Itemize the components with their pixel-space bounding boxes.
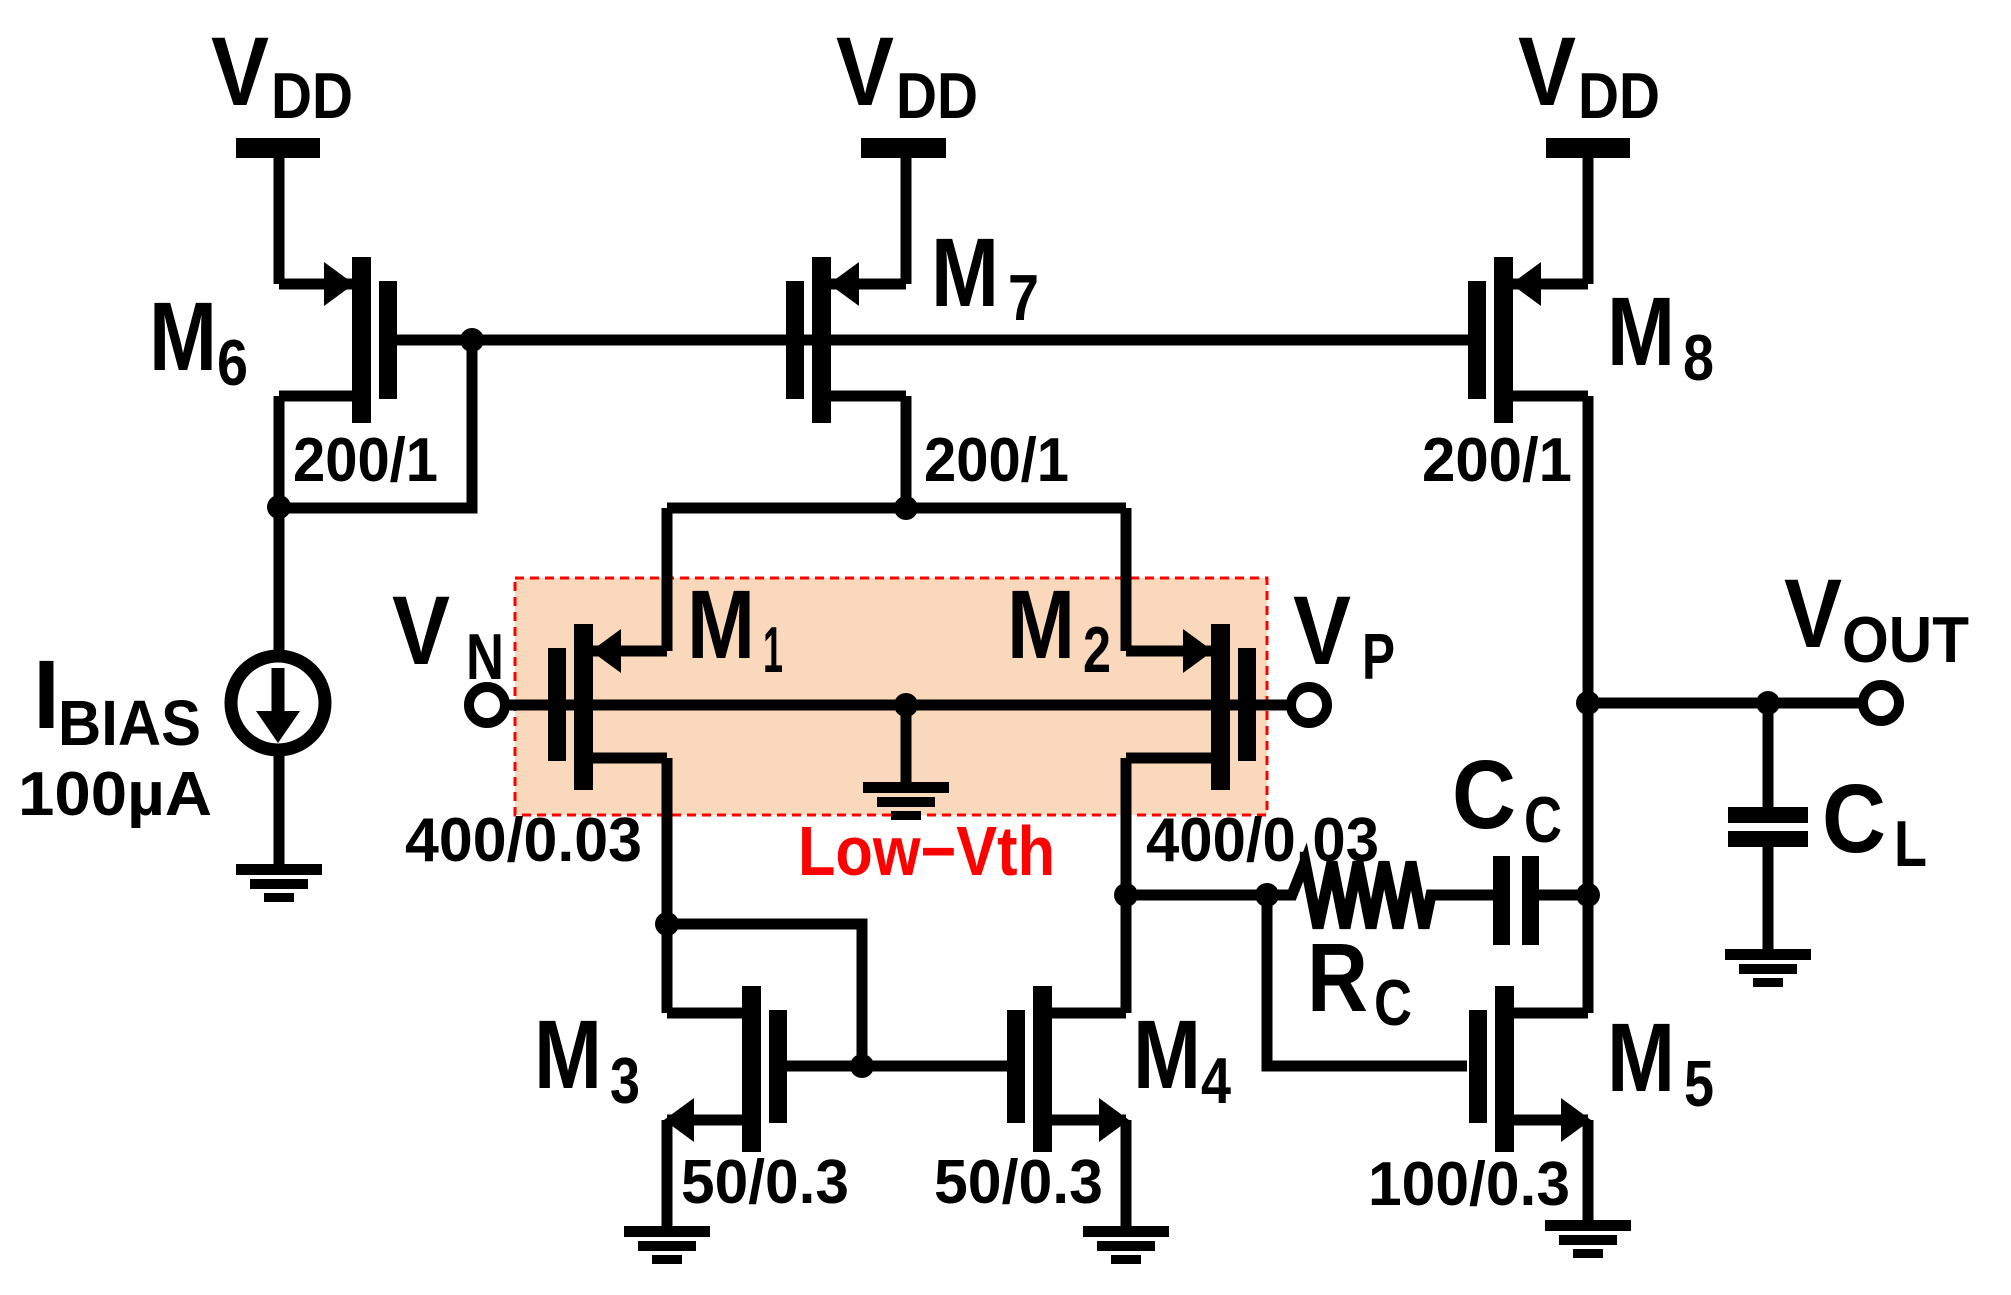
svg-text:8: 8 xyxy=(1683,321,1714,394)
svg-text:1: 1 xyxy=(763,613,783,686)
wire (bias node to current source) xyxy=(274,507,285,660)
svg-text:100/0.3: 100/0.3 xyxy=(1368,1150,1570,1219)
wire (tail to M1 source) xyxy=(662,508,673,651)
ground (CL) xyxy=(1725,949,1811,987)
svg-text:7: 7 xyxy=(1008,261,1039,334)
wire (M4 drain up) xyxy=(1121,895,1132,1013)
wire (gate bus M6-M7-M8) xyxy=(472,335,1470,346)
capacitor CC xyxy=(1493,856,1588,945)
wire (VN gate / bulk line / VP gate) xyxy=(508,700,1287,711)
svg-text:V: V xyxy=(1784,559,1842,668)
wire (tail to M2 source) xyxy=(1121,508,1132,651)
ground (M3) xyxy=(624,1226,710,1264)
svg-text:C: C xyxy=(1524,783,1562,856)
node (CC to output branch) xyxy=(1576,883,1600,907)
transistor M5 (NMOS output) xyxy=(1469,986,1591,1152)
svg-text:L: L xyxy=(1894,807,1927,880)
wire (M7 drain to tail node) xyxy=(901,396,912,508)
node (first-stage output) xyxy=(1114,883,1138,907)
node (VOUT tap) xyxy=(1576,691,1600,715)
power VDD (M8 branch) xyxy=(1546,138,1630,284)
transistor M6 (PMOS, diode-connected) xyxy=(279,257,472,423)
svg-text:4: 4 xyxy=(1201,1044,1231,1117)
node (tail) xyxy=(894,496,918,520)
wire (bulk to ground) xyxy=(901,705,912,784)
wire (tail rail) xyxy=(667,503,1126,514)
svg-text:C: C xyxy=(1452,740,1516,849)
svg-text:V: V xyxy=(1293,576,1351,685)
power VDD (M7 branch) xyxy=(861,138,946,284)
wire (M6 gate-drain diode connection) xyxy=(285,340,472,508)
wire (M3 gate-drain diode connection) xyxy=(667,924,862,1066)
svg-text:BIAS: BIAS xyxy=(58,687,201,759)
transistor M4 (NMOS mirror) xyxy=(1007,986,1129,1152)
ground (bulk of M1/M2) xyxy=(863,782,949,820)
wire (to M5 gate) xyxy=(1267,895,1467,1066)
svg-text:50/0.3: 50/0.3 xyxy=(934,1148,1103,1217)
svg-text:DD: DD xyxy=(1578,59,1660,132)
svg-text:M: M xyxy=(1607,277,1675,386)
wire (VOUT rail) xyxy=(1588,698,1862,709)
svg-text:M: M xyxy=(687,570,755,679)
node (M6 gate/drain tie) xyxy=(460,328,484,352)
svg-text:N: N xyxy=(466,620,504,693)
wire (to compensation network) xyxy=(1126,890,1267,901)
svg-text:C: C xyxy=(1374,966,1412,1039)
svg-text:I: I xyxy=(33,640,60,749)
transistor M8 (PMOS output source) xyxy=(1468,257,1588,423)
wire (M5 source to ground) xyxy=(1583,1120,1594,1222)
terminal VOUT xyxy=(1863,685,1899,721)
wire (M3 source to ground) xyxy=(662,1120,673,1228)
svg-text:M: M xyxy=(931,218,999,327)
current source IBIAS xyxy=(231,656,325,750)
wire (M4 source to ground) xyxy=(1121,1120,1132,1228)
svg-text:400/0.03: 400/0.03 xyxy=(405,806,642,875)
svg-text:M: M xyxy=(1607,1003,1675,1112)
wire (M1 drain to M3 drain) xyxy=(662,758,673,1013)
svg-text:DD: DD xyxy=(896,59,978,132)
node (M6 drain / IBIAS) xyxy=(267,495,291,519)
svg-text:V: V xyxy=(392,576,450,685)
svg-text:Low−Vth: Low−Vth xyxy=(798,812,1055,890)
node (bulk tie) xyxy=(894,693,918,717)
node (M3 drain/gate tie) xyxy=(655,912,679,936)
resistor RC xyxy=(1267,862,1493,928)
svg-text:M: M xyxy=(1007,570,1075,679)
svg-text:200/1: 200/1 xyxy=(924,426,1069,495)
svg-text:5: 5 xyxy=(1684,1047,1714,1120)
power VDD (M6 branch) xyxy=(236,138,320,284)
ground (IBIAS) xyxy=(236,864,322,902)
svg-text:3: 3 xyxy=(610,1044,640,1117)
transistor M1 (low-Vth PMOS input) xyxy=(548,624,667,790)
svg-text:6: 6 xyxy=(217,326,248,399)
transistor M2 (low-Vth PMOS input) xyxy=(1126,624,1256,790)
svg-text:M: M xyxy=(149,282,217,391)
terminal VN xyxy=(469,687,505,723)
node (M3/M4 gate) xyxy=(850,1054,874,1078)
svg-text:M: M xyxy=(1133,1000,1201,1109)
svg-text:OUT: OUT xyxy=(1842,603,1969,676)
svg-text:DD: DD xyxy=(271,59,353,132)
transistor M7 (PMOS tail source) xyxy=(786,257,906,423)
node (RC / M5 gate) xyxy=(1255,883,1279,907)
svg-text:200/1: 200/1 xyxy=(293,426,438,495)
wire (M2 drain down) xyxy=(1121,758,1132,895)
wire (M6 drain down to bias node) xyxy=(274,396,285,507)
ground (M5) xyxy=(1545,1220,1631,1258)
transistor M3 (NMOS mirror, diode-connected) xyxy=(664,986,787,1152)
svg-text:V: V xyxy=(1518,17,1576,126)
svg-text:V: V xyxy=(836,17,894,126)
svg-text:100µA: 100µA xyxy=(18,760,212,829)
svg-text:200/1: 200/1 xyxy=(1422,426,1572,495)
Low-Vth highlight region xyxy=(515,578,1267,815)
svg-text:R: R xyxy=(1307,923,1368,1032)
svg-text:400/0.03: 400/0.03 xyxy=(1146,806,1379,875)
node (CL tap) xyxy=(1756,691,1780,715)
svg-text:50/0.3: 50/0.3 xyxy=(681,1148,849,1217)
ground (M4) xyxy=(1083,1226,1169,1264)
svg-text:P: P xyxy=(1362,620,1395,693)
svg-text:2: 2 xyxy=(1083,613,1111,686)
svg-text:V: V xyxy=(211,17,269,126)
svg-text:M: M xyxy=(534,1000,602,1109)
wire (current source to ground) xyxy=(274,750,285,866)
svg-text:C: C xyxy=(1822,764,1886,873)
capacitor CL xyxy=(1728,703,1808,951)
terminal VP xyxy=(1291,687,1327,723)
wire (mirror gate bus M3-M4) xyxy=(787,1061,1007,1072)
wire (M8 drain / output branch) xyxy=(1583,396,1594,1013)
